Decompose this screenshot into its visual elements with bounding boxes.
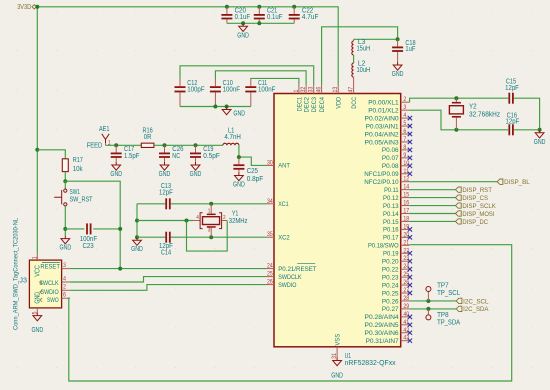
junction C21 bottom — [257, 21, 261, 25]
svg-text:32: 32 — [300, 86, 307, 92]
U1 pin 7 P0.05/AIN3 — [365, 136, 413, 146]
svg-text:ANT: ANT — [278, 163, 290, 170]
wire SW1 to C23 node — [64, 206, 66, 236]
svg-text:C17: C17 — [124, 146, 134, 153]
U1 pin 25 SWDCLK — [267, 271, 303, 281]
inductor L1 — [223, 127, 241, 145]
ground below C10 group — [222, 107, 245, 118]
U1 pin 3 P0.01/XL2 — [368, 104, 409, 114]
U1 pin 17 P0.14 — [383, 208, 410, 218]
svg-text:TP8: TP8 — [437, 312, 449, 319]
junction C21 top — [257, 5, 261, 9]
wire left GND vertical of crystal — [136, 204, 138, 237]
svg-text:11: 11 — [403, 168, 409, 175]
wire C15 right down to gnd rail — [514, 98, 540, 130]
U1 pin 22 P0.19 — [383, 247, 412, 257]
svg-text:100nF: 100nF — [223, 87, 240, 94]
svg-text:P0.16: P0.16 — [383, 227, 399, 234]
svg-text:15uH: 15uH — [357, 46, 371, 53]
ground below SW1 — [59, 236, 71, 252]
wire to C23 left — [65, 228, 84, 230]
svg-text:DISP_SCLK: DISP_SCLK — [462, 203, 496, 210]
svg-text:Y2: Y2 — [469, 103, 477, 110]
svg-text:42: 42 — [403, 327, 409, 334]
svg-text:15: 15 — [403, 192, 409, 199]
ground below C17 — [110, 162, 122, 178]
svg-text:19: 19 — [403, 223, 409, 230]
svg-text:P0.30/AIN6: P0.30/AIN6 — [365, 330, 399, 337]
junction Y1 pin3 on XC2 net — [209, 235, 213, 239]
junction C20 top — [225, 5, 229, 9]
wire C14 to XC2 pin — [171, 236, 267, 238]
resistor R17 — [62, 157, 83, 173]
svg-text:SWDCLK: SWDCLK — [278, 274, 302, 281]
svg-text:23: 23 — [403, 255, 409, 262]
svg-text:3: 3 — [63, 262, 66, 269]
svg-text:P0.03/AIN1: P0.03/AIN1 — [366, 123, 399, 130]
capacitor C22 — [289, 7, 319, 24]
svg-text:I2C_SCL: I2C_SCL — [463, 298, 489, 305]
svg-text:GND: GND — [31, 327, 43, 334]
svg-text:12pF: 12pF — [159, 190, 173, 197]
wire P0.01/XL2 to crystal bottom rail — [410, 110, 509, 130]
junction crystal gnd corner — [538, 128, 542, 132]
svg-text:3: 3 — [403, 104, 406, 111]
wire U1 to DISP_DC — [410, 220, 456, 222]
svg-text:GND: GND — [237, 32, 249, 39]
U1 pin 9 P0.07 — [382, 152, 412, 162]
U1 pin 19 P0.16 — [383, 223, 412, 233]
global label I2C_SCL — [456, 298, 489, 305]
wire R16 to L1 — [154, 144, 223, 146]
svg-text:34: 34 — [267, 198, 273, 205]
capacitor C20 — [221, 7, 250, 24]
svg-text:P0.15: P0.15 — [383, 219, 399, 226]
svg-text:3V3D: 3V3D — [17, 4, 31, 11]
svg-text:XC1: XC1 — [278, 201, 289, 208]
wire Y1 case ground loop — [187, 221, 228, 252]
U1 pin 18 P0.15 — [383, 215, 410, 225]
svg-text:P0.00/XL1: P0.00/XL1 — [368, 100, 399, 107]
junction TP8 tap — [426, 307, 430, 311]
U1 pin 35 XC2 — [267, 231, 290, 241]
svg-text:P0.29/AIN5: P0.29/AIN5 — [365, 322, 399, 329]
junction GND tap of C20 group — [241, 21, 245, 25]
svg-text:DEC3: DEC3 — [311, 97, 318, 113]
svg-text:10uH: 10uH — [357, 67, 371, 74]
junction SW1 bottom / GND — [63, 227, 67, 231]
junction C22 top — [292, 5, 296, 9]
junction TP7 tap — [426, 299, 430, 303]
capacitor C12 — [175, 79, 205, 107]
svg-text:P0.22: P0.22 — [382, 266, 399, 273]
svg-text:100nF: 100nF — [258, 87, 275, 94]
U1 pin 24 P0.22 — [382, 263, 412, 273]
svg-text:RESET: RESET — [40, 264, 60, 271]
svg-text:SW_RST: SW_RST — [70, 197, 94, 204]
svg-text:P0.11: P0.11 — [384, 187, 399, 194]
svg-text:10k: 10k — [73, 166, 83, 173]
U1 pin 26 SWDIO — [267, 279, 297, 289]
svg-text:FEED: FEED — [87, 143, 103, 150]
U1 pin 27 P0.25 — [382, 287, 412, 297]
svg-text:13: 13 — [332, 86, 339, 92]
svg-text:GND: GND — [233, 182, 245, 189]
U1 pin 34 XC1 — [267, 198, 289, 208]
svg-text:P0.18/SWO: P0.18/SWO — [368, 243, 399, 250]
svg-text:DISP_DC: DISP_DC — [462, 219, 488, 226]
U1 pin 13 VDD — [332, 85, 343, 109]
wire U1 to DISP_MOSI — [410, 213, 456, 215]
svg-text:32MHz: 32MHz — [229, 218, 248, 225]
svg-text:32.768kHz: 32.768kHz — [469, 112, 501, 119]
wire DEC4 pin 46 to L3/C18 node — [322, 27, 398, 85]
U1 pin 4 P0.02/AIN0 — [365, 112, 413, 122]
svg-text:P0.04/AIN2: P0.04/AIN2 — [365, 131, 399, 138]
junction C19 top — [194, 143, 198, 147]
svg-text:DEC2: DEC2 — [304, 97, 311, 113]
U1 pin 42 P0.30/AIN6 — [365, 327, 413, 337]
J3 pin 5 GND — [32, 308, 39, 315]
ground below C18 — [392, 62, 404, 78]
global label DISP_MOSI — [456, 211, 495, 218]
svg-text:nRF52832-QFxx: nRF52832-QFxx — [345, 360, 397, 367]
U1 pin 12 NFC2/P0.10 — [364, 176, 409, 186]
svg-text:GND: GND — [392, 71, 404, 78]
resistor R16 — [141, 127, 154, 147]
wire L3 to L2 — [353, 55, 355, 63]
svg-text:NFC2/P0.10: NFC2/P0.10 — [364, 179, 399, 186]
wire J3 SWO to U1 P0.18/SWO — [69, 245, 512, 381]
svg-text:GND: GND — [159, 171, 171, 178]
wire DEC1 pin 1 to C11 — [251, 78, 299, 85]
capacitor C14 — [159, 232, 173, 257]
svg-text:12: 12 — [403, 176, 409, 183]
ground below C25 — [233, 173, 245, 189]
wire C25 node to ANT pin — [239, 157, 267, 165]
wire node to L3 top — [354, 38, 398, 40]
svg-text:GND: GND — [131, 246, 143, 253]
wire U1 to DISP_CS — [410, 197, 456, 199]
wire J3 SWCLK to U1 SWDCLK — [70, 277, 267, 282]
svg-text:J3: J3 — [19, 277, 27, 284]
svg-text:4: 4 — [403, 112, 406, 119]
svg-text:DEC4: DEC4 — [319, 97, 326, 113]
U1 pin 2 P0.00/XL1 — [368, 96, 409, 106]
inductor L2 — [352, 60, 370, 85]
svg-text:20: 20 — [403, 231, 409, 238]
svg-text:3: 3 — [208, 228, 211, 234]
svg-text:21: 21 — [403, 239, 409, 246]
capacitor C16 — [506, 113, 520, 136]
wire U1 P0.26 to I2C_SCL — [410, 300, 457, 302]
U1 pin 26 P0.24 — [382, 279, 412, 289]
svg-text:P0.01/XL2: P0.01/XL2 — [368, 107, 399, 114]
svg-text:DISP_BL: DISP_BL — [504, 179, 530, 186]
wire C16 to gnd corner — [514, 129, 540, 131]
svg-text:DCC: DCC — [351, 97, 358, 109]
svg-text:SW1: SW1 — [70, 189, 81, 196]
svg-text:28: 28 — [403, 295, 409, 302]
U1 pin 47 DCC — [348, 85, 359, 109]
svg-text:17: 17 — [403, 208, 409, 215]
svg-text:TP7: TP7 — [437, 283, 449, 290]
U1 pin 1 DEC1 — [293, 85, 304, 111]
wire reset node down to RESET net — [65, 181, 120, 268]
capacitor C11 — [245, 79, 275, 107]
svg-text:AE1: AE1 — [99, 126, 110, 133]
svg-text:P0.28/AIN4: P0.28/AIN4 — [365, 314, 399, 321]
svg-text:46: 46 — [316, 86, 323, 92]
U1 pin 24 P0.21/RESET — [267, 263, 317, 273]
wire C23 right to vertical — [93, 228, 120, 230]
wire L1 to C25 node — [238, 145, 240, 157]
junction case-gnd wire — [135, 219, 139, 223]
ground below U1 VSS — [331, 358, 343, 380]
svg-text:P0.21/RESET: P0.21/RESET — [278, 266, 316, 273]
IC U1 nRF52832-QFxx body — [274, 94, 401, 347]
U1 pin 14 P0.11 — [384, 184, 410, 194]
wire 3V3D to R17 — [37, 150, 65, 159]
junction R17/SW1 node — [63, 179, 67, 183]
J3 pin 4 SWCLK — [62, 275, 70, 282]
power symbol 3V3D — [17, 4, 36, 11]
wire 3V3D rail to VDD pin 13 — [37, 7, 338, 85]
svg-text:0.8pF: 0.8pF — [247, 176, 264, 183]
svg-text:XC2: XC2 — [278, 235, 290, 242]
svg-text:P0.12: P0.12 — [383, 195, 399, 202]
global label DISP_CS — [456, 195, 489, 202]
svg-text:30: 30 — [267, 159, 273, 166]
junction 3V3D rail — [35, 5, 39, 9]
antenna AE1 — [99, 126, 111, 147]
svg-text:0.5pF: 0.5pF — [203, 153, 220, 160]
U1 pin 31 VSS — [331, 333, 341, 358]
global label DISP_SCLK — [456, 203, 497, 210]
junction Y1 case loop — [185, 219, 189, 223]
svg-text:18: 18 — [403, 215, 409, 222]
junction C23/vertical — [118, 227, 122, 231]
U1 pin 15 P0.12 — [383, 192, 410, 202]
svg-text:GND: GND — [233, 111, 245, 118]
U1 pin 46 DEC4 — [316, 85, 327, 113]
capacitor C13 — [159, 183, 173, 209]
wire U1 to DISP_BL — [410, 181, 498, 183]
svg-text:0.1uF: 0.1uF — [235, 14, 250, 21]
U1 pin 6 P0.04/AIN2 — [365, 128, 413, 138]
svg-text:1: 1 — [32, 256, 39, 259]
junction C10 bottom — [213, 105, 217, 109]
ground below C19 — [190, 162, 202, 178]
svg-text:4: 4 — [196, 215, 199, 221]
U1 pin 41 P0.29/AIN5 — [365, 319, 413, 329]
U1 pin 40 P0.28/AIN4 — [365, 311, 413, 321]
svg-text:TP_SDA: TP_SDA — [437, 320, 460, 327]
svg-text:12pF: 12pF — [506, 119, 520, 126]
J3 pin 1 VCC — [32, 254, 39, 260]
junction GND tap of C10 group — [225, 105, 229, 109]
svg-text:16: 16 — [403, 200, 409, 207]
svg-text:C23: C23 — [82, 243, 93, 250]
svg-text:R17: R17 — [73, 157, 83, 164]
J3 pin 3 RESET — [62, 262, 70, 269]
capacitor C26 — [159, 145, 184, 162]
svg-text:P0.24: P0.24 — [382, 282, 399, 289]
global label DISP_DC — [456, 219, 489, 226]
svg-text:P0.06: P0.06 — [382, 147, 399, 154]
test point TP8 — [426, 309, 461, 327]
wire FEED to R16 — [106, 144, 142, 146]
switch SW1 — [54, 181, 93, 206]
J3 pin 6 SWO — [62, 292, 70, 299]
ground below C20 group — [237, 23, 249, 39]
svg-text:P0.26: P0.26 — [382, 298, 399, 305]
U1 pin 43 P0.31/AIN7 — [366, 335, 413, 345]
svg-text:25: 25 — [403, 271, 409, 278]
svg-text:9: 9 — [403, 152, 406, 159]
svg-text:P0.19: P0.19 — [383, 251, 399, 258]
svg-text:4.7nH: 4.7nH — [224, 134, 241, 141]
svg-text:TP_SCL: TP_SCL — [437, 290, 460, 297]
svg-text:4: 4 — [63, 275, 66, 282]
svg-text:12pF: 12pF — [505, 85, 519, 92]
svg-text:GND: GND — [534, 139, 546, 146]
wire J3 SWDIO to U1 SWDIO — [70, 285, 267, 291]
svg-text:P0.07: P0.07 — [382, 155, 399, 162]
inductor L3 — [352, 39, 370, 55]
svg-text:C19: C19 — [203, 146, 213, 153]
svg-text:5: 5 — [403, 120, 406, 127]
U1 pin 23 P0.20 — [382, 255, 412, 265]
wire XC1 net left of C13 — [137, 203, 165, 205]
svg-text:U1: U1 — [345, 353, 352, 360]
U1 pin 32 DEC2 — [300, 85, 311, 113]
svg-text:0R: 0R — [144, 134, 152, 141]
svg-text:29: 29 — [403, 303, 409, 310]
svg-text:DISP_CS: DISP_CS — [462, 195, 488, 202]
svg-text:SWDIO: SWDIO — [41, 289, 59, 296]
capacitor C18 — [392, 39, 416, 62]
svg-text:P0.14: P0.14 — [383, 211, 399, 218]
svg-text:7: 7 — [403, 136, 406, 143]
wire J3 RESET to U1 P0.21 — [70, 268, 267, 270]
wire case gnd to Y1 pin 4 — [137, 220, 193, 222]
svg-text:NFC1/P0.09: NFC1/P0.09 — [364, 171, 399, 178]
connector J3 TC2030 — [29, 260, 61, 308]
svg-text:25: 25 — [267, 271, 273, 278]
U1 pin 5 P0.03/AIN1 — [366, 120, 413, 130]
svg-text:C25: C25 — [247, 168, 258, 175]
ground below C26 — [159, 162, 171, 178]
svg-text:Conn_ARM_SWD_TagConnect_TC2030: Conn_ARM_SWD_TagConnect_TC2030-NL — [12, 218, 19, 330]
global label DISP_RST — [456, 187, 492, 194]
wire C12-C11 bottom bus — [180, 106, 251, 108]
wire C13 to XC1 pin — [171, 203, 267, 205]
junction Y1 pin1 on XC1 net — [209, 202, 213, 206]
svg-text:P0.20: P0.20 — [382, 259, 399, 266]
svg-text:P0.13: P0.13 — [383, 203, 399, 210]
svg-text:GND: GND — [59, 245, 71, 252]
wire C20-C22 bottom bus — [227, 22, 294, 24]
svg-text:100pF: 100pF — [187, 87, 204, 94]
svg-text:6: 6 — [63, 292, 66, 299]
junction Y2 bottom — [454, 128, 458, 132]
crystal Y1 32MHz — [193, 204, 248, 237]
svg-text:P0.31/AIN7: P0.31/AIN7 — [366, 338, 399, 345]
svg-text:26: 26 — [403, 279, 409, 286]
U1 pin 11 NFC1/P0.09 — [364, 168, 412, 178]
U1 pin 16 P0.13 — [383, 200, 410, 210]
svg-text:DEC1: DEC1 — [296, 97, 303, 112]
svg-text:26: 26 — [267, 279, 273, 286]
svg-text:43: 43 — [403, 335, 409, 342]
junction C18 top node — [396, 37, 400, 41]
capacitor C17 — [111, 145, 140, 162]
crystal Y2 32.768kHz — [449, 98, 500, 130]
svg-text:P0.08: P0.08 — [382, 163, 399, 170]
svg-text:C26: C26 — [172, 146, 183, 153]
svg-text:2: 2 — [403, 96, 406, 103]
svg-text:1: 1 — [293, 89, 300, 92]
svg-text:NC: NC — [172, 153, 180, 160]
wire U1 to DISP_RST — [410, 189, 456, 191]
wire R17 to SW1 node — [64, 172, 66, 182]
svg-text:27: 27 — [403, 287, 409, 294]
svg-text:1: 1 — [208, 208, 211, 214]
U1 pin 29 P0.27 — [382, 303, 410, 313]
wire XC2 net left of C14 — [137, 236, 165, 238]
svg-text:VSS: VSS — [335, 333, 342, 345]
junction XC2 net at GND vertical — [135, 235, 139, 239]
svg-text:40: 40 — [403, 311, 409, 318]
svg-text:6: 6 — [403, 128, 406, 135]
U1 pin 28 P0.26 — [382, 295, 410, 305]
wire DEC3 pin 33 to C12 — [180, 66, 314, 85]
wire 3V3D down to J3 VCC — [36, 7, 38, 254]
svg-text:24: 24 — [267, 263, 273, 270]
svg-text:41: 41 — [403, 319, 409, 326]
svg-text:GND: GND — [331, 373, 343, 380]
capacitor C21 — [254, 7, 283, 24]
svg-text:24: 24 — [403, 263, 409, 270]
svg-text:1.5pF: 1.5pF — [124, 153, 139, 160]
junction C25 top — [237, 155, 241, 159]
junction C26 top — [163, 143, 167, 147]
wire U1 P0.27 to I2C_SDA — [410, 308, 457, 310]
svg-text:P0.23: P0.23 — [382, 274, 399, 281]
svg-text:Y1: Y1 — [232, 211, 239, 218]
capacitor C10 — [210, 79, 240, 107]
svg-text:0.1uF: 0.1uF — [267, 14, 282, 21]
svg-text:P0.05/AIN3: P0.05/AIN3 — [365, 139, 399, 146]
U1 pin 10 P0.08 — [382, 160, 412, 170]
svg-text:22: 22 — [403, 247, 409, 254]
svg-text:2: 2 — [63, 284, 66, 291]
U1 pin 20 P0.17 — [383, 231, 412, 241]
wire U1 to DISP_SCLK — [410, 205, 456, 207]
capacitor C25 — [233, 157, 263, 183]
svg-text:2: 2 — [223, 215, 226, 221]
svg-text:SWDIO: SWDIO — [278, 282, 296, 289]
svg-text:P0.25: P0.25 — [382, 290, 399, 297]
U1 pin 25 P0.23 — [382, 271, 412, 281]
svg-text:8: 8 — [403, 144, 406, 151]
svg-text:VDD: VDD — [336, 97, 343, 109]
svg-text:10: 10 — [403, 160, 409, 167]
svg-text:4.7uF: 4.7uF — [302, 14, 319, 21]
U1 pin 21 P0.18/SWO — [368, 239, 410, 249]
global label I2C_SDA — [456, 306, 489, 313]
